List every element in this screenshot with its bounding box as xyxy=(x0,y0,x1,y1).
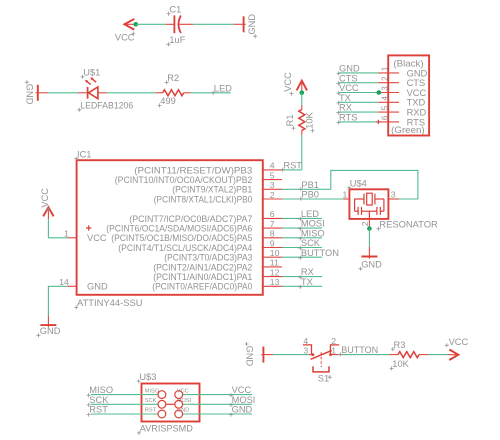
switch S1 xyxy=(303,345,339,372)
svg-text:RST: RST xyxy=(89,405,108,415)
wire VCC to C1 xyxy=(136,23,166,25)
wire net MOSI xyxy=(282,227,322,229)
svg-text:U$1: U$1 xyxy=(83,68,100,78)
ISP pad name GND xyxy=(177,408,189,414)
connector U$3 ISP box xyxy=(142,384,200,422)
wire ISP to net MOSI xyxy=(183,403,252,405)
FTDI pin 6 xyxy=(378,115,399,122)
node: junction dot on VCC wire at FTDI xyxy=(377,90,382,95)
IC1 pin 8 xyxy=(263,229,282,239)
svg-text:(PCINT3/T0/ADC3)PA3: (PCINT3/T0/ADC3)PA3 xyxy=(164,253,252,263)
svg-text:BUTTON: BUTTON xyxy=(341,345,378,355)
net label LED xyxy=(298,209,319,221)
pin connect cross on RTS xyxy=(376,120,380,124)
svg-text:GND: GND xyxy=(87,282,108,292)
wire net GND to FTDI pin 1 xyxy=(339,72,379,74)
wire net RX to FTDI pin 5 xyxy=(339,111,379,113)
resonator pin 2 xyxy=(360,219,370,229)
value 1uF xyxy=(166,35,185,46)
resistor R1 xyxy=(299,105,305,135)
svg-text:8: 8 xyxy=(270,229,275,239)
svg-text:3: 3 xyxy=(303,345,308,355)
GND label (LED row) xyxy=(25,80,35,105)
value RESONATOR xyxy=(377,220,438,231)
svg-text:2: 2 xyxy=(380,76,389,81)
svg-text:PB1: PB1 xyxy=(301,180,319,190)
svg-text:GND: GND xyxy=(40,326,61,336)
net label MOSI (right) xyxy=(229,395,255,407)
VCC label (top left) xyxy=(115,32,135,42)
IC1 pin 1 plus mark xyxy=(86,225,91,230)
net label CTS xyxy=(336,73,357,85)
value 10K (R1) xyxy=(304,111,314,132)
svg-text:4: 4 xyxy=(270,161,275,171)
IC1 pin name PB1 xyxy=(172,185,252,195)
net label VCC xyxy=(336,83,359,95)
net label MISO xyxy=(87,385,113,397)
svg-text:RTS: RTS xyxy=(407,117,425,127)
svg-text:2: 2 xyxy=(360,221,370,226)
IC1 pin 14 (GND) xyxy=(59,277,76,287)
svg-text:5: 5 xyxy=(380,105,389,110)
IC1 pin 9 xyxy=(263,238,282,248)
svg-text:R1: R1 xyxy=(285,114,295,126)
svg-text:2: 2 xyxy=(270,190,275,200)
label C1 xyxy=(167,4,182,15)
svg-text:(PCINT10/INT0/OC0A/CKOUT)PB2: (PCINT10/INT0/OC0A/CKOUT)PB2 xyxy=(115,175,253,185)
svg-text:U$4: U$4 xyxy=(350,179,367,189)
svg-text:RX: RX xyxy=(339,103,352,113)
svg-text:RESONATOR: RESONATOR xyxy=(379,220,438,230)
svg-text:(PCINT4/T1/SCL/USCK/ADC4)PA4: (PCINT4/T1/SCL/USCK/ADC4)PA4 xyxy=(118,243,252,253)
resistor R3 xyxy=(389,352,428,358)
ground (below pin 14) xyxy=(40,315,56,327)
FTDI pin name CTS xyxy=(407,78,426,88)
IC1 pin name PA3 xyxy=(164,253,252,263)
power VCC symbol (left of IC1) xyxy=(43,207,53,219)
svg-text:IC1: IC1 xyxy=(77,149,91,159)
FTDI pin 2 xyxy=(378,76,399,83)
FTDI pin name RXD xyxy=(407,108,427,118)
svg-text:ATTINY44-SSU: ATTINY44-SSU xyxy=(77,298,143,308)
svg-text:3: 3 xyxy=(270,180,275,190)
resistor R2 xyxy=(156,90,191,96)
IC1 pin name PA7 xyxy=(129,214,252,224)
label IC1 xyxy=(74,149,91,160)
svg-text:VCC: VCC xyxy=(283,72,293,92)
svg-text:(PCINT6/OC1A/SDA/MOSI/ADC6)PA6: (PCINT6/OC1A/SDA/MOSI/ADC6)PA6 xyxy=(106,224,252,234)
IC1 pin 10 xyxy=(263,248,282,258)
FTDI pin 5 xyxy=(378,105,399,112)
svg-text:SCK: SCK xyxy=(145,398,157,404)
svg-text:VCC: VCC xyxy=(449,337,469,347)
wire net CTS to FTDI pin 2 xyxy=(339,82,379,84)
FTDI pin name GND xyxy=(407,68,428,78)
IC1 pin name PB3 xyxy=(134,165,252,175)
IC1 pin 2 xyxy=(263,190,282,200)
svg-text:PB0: PB0 xyxy=(301,190,319,200)
svg-text:(Black): (Black) xyxy=(393,59,423,69)
wire R2 to LED net xyxy=(191,92,231,94)
value LEDFAB1206 xyxy=(77,101,133,112)
net label MISO xyxy=(298,228,324,240)
wire net RST to ISP xyxy=(91,413,158,415)
svg-text:1: 1 xyxy=(64,228,69,238)
VCC label (left of IC1) xyxy=(40,188,50,212)
label S1 xyxy=(318,374,332,384)
svg-text:5: 5 xyxy=(270,170,275,180)
svg-text:TX: TX xyxy=(339,93,351,103)
IC1 pin 5 xyxy=(263,170,282,180)
svg-text:9: 9 xyxy=(270,238,275,248)
svg-text:R2: R2 xyxy=(167,73,179,83)
net label GND xyxy=(336,64,360,76)
S1 pin number 1 xyxy=(331,345,336,355)
GND label (below resonator) xyxy=(359,260,383,271)
net label PB1 xyxy=(299,180,319,191)
ISP pad name RST xyxy=(145,408,157,414)
ISP pad name VCC xyxy=(177,388,189,394)
wire resonator pin 2 to GND xyxy=(368,229,370,247)
svg-text:10K: 10K xyxy=(392,359,409,369)
wire VCC to R1 xyxy=(301,93,303,105)
svg-text:LEDFAB1206: LEDFAB1206 xyxy=(80,101,133,111)
IC1 pin 12 xyxy=(263,267,282,277)
svg-text:1: 1 xyxy=(331,345,336,355)
svg-text:GND: GND xyxy=(232,405,253,415)
power VCC symbol (above R1) xyxy=(297,81,307,93)
label R3 xyxy=(391,340,406,351)
wire net RTS to FTDI pin 6 xyxy=(339,121,379,123)
IC1 pin name PB0 xyxy=(154,194,253,204)
svg-text:LED: LED xyxy=(301,209,319,219)
net label SCK xyxy=(87,395,110,407)
svg-text:499: 499 xyxy=(160,96,176,106)
connector J1 FTDI box xyxy=(388,55,429,135)
IC1 pin name PA6 xyxy=(106,224,252,234)
net label SCK xyxy=(298,238,321,250)
svg-text:12: 12 xyxy=(270,267,280,277)
value ATTINY44-SSU xyxy=(74,298,142,309)
ISP pad name MOSI xyxy=(177,398,192,404)
ISP pads (circles) xyxy=(158,391,183,418)
wire LED to R2 xyxy=(107,92,156,94)
node: VCC junction dot at arrow xyxy=(134,22,139,27)
label R2 xyxy=(165,73,179,84)
svg-text:6: 6 xyxy=(380,115,389,120)
svg-text:(PCINT8/XTAL1/CLKI)PB0: (PCINT8/XTAL1/CLKI)PB0 xyxy=(154,194,253,204)
FTDI pin name RTS xyxy=(407,117,425,127)
svg-text:1: 1 xyxy=(380,66,389,71)
node: junction dot at resonator pin 2 xyxy=(367,226,372,231)
value 10K (R3) xyxy=(390,359,410,370)
net label VCC (right) xyxy=(229,385,252,397)
wire net SCK to ISP xyxy=(91,403,158,405)
net label BUTTON xyxy=(298,248,339,260)
svg-text:(PCINT7/ICP/OC0B/ADC7)PA7: (PCINT7/ICP/OC0B/ADC7)PA7 xyxy=(129,214,252,224)
svg-text:MISO: MISO xyxy=(301,228,325,238)
ISP pad name MISO xyxy=(145,388,160,394)
ground (LED row left) xyxy=(36,85,48,101)
svg-text:R3: R3 xyxy=(394,340,406,350)
svg-text:SCK: SCK xyxy=(301,238,321,248)
net label MOSI xyxy=(298,219,324,231)
svg-text:GND: GND xyxy=(244,346,254,367)
svg-text:3: 3 xyxy=(391,189,396,199)
IC1 pin 3 xyxy=(263,180,282,190)
svg-text:(PCINT11/RESET/DW)PB3: (PCINT11/RESET/DW)PB3 xyxy=(134,165,252,175)
IC1 pin name GND xyxy=(87,282,108,292)
label U$4 xyxy=(347,179,367,190)
wire net LED xyxy=(282,217,322,219)
svg-text:(PCINT1/AIN0/ADC1)PA1: (PCINT1/AIN0/ADC1)PA1 xyxy=(153,272,252,282)
IC1 pin name PA5 xyxy=(111,233,252,243)
resonator pin 3 xyxy=(388,189,399,199)
IC1 pin name PA0 xyxy=(152,282,252,292)
label R1 xyxy=(285,114,295,130)
wire ISP to net GND xyxy=(183,413,252,415)
net label RST xyxy=(281,161,303,172)
IC U1 ATTINY44 box xyxy=(77,160,263,295)
svg-text:MISO: MISO xyxy=(145,388,160,394)
IC1 pin 13 xyxy=(263,277,282,287)
wire GND to S1 xyxy=(273,354,309,356)
svg-text:13: 13 xyxy=(270,277,280,287)
svg-text:3: 3 xyxy=(380,86,389,91)
wire net TX to FTDI pin 4 xyxy=(339,101,379,103)
label U$3 xyxy=(137,372,157,383)
resonator U$4 box xyxy=(349,189,388,219)
VCC label (above R1) xyxy=(283,72,293,96)
FTDI pin name VCC xyxy=(407,88,427,98)
net label TX xyxy=(336,93,350,105)
resonator U$4 crystal internals xyxy=(354,193,384,219)
svg-text:RST: RST xyxy=(145,408,157,414)
svg-text:VCC: VCC xyxy=(407,88,427,98)
net label LED xyxy=(211,84,232,95)
wire VCC to IC1 pin 1 xyxy=(48,219,67,238)
wire net MISO to ISP xyxy=(91,394,158,396)
svg-text:2: 2 xyxy=(331,336,336,346)
svg-text:C1: C1 xyxy=(169,4,181,14)
wire ISP to net VCC xyxy=(183,394,252,396)
svg-text:(PCINT9/XTAL2)PB1: (PCINT9/XTAL2)PB1 xyxy=(172,185,252,195)
S1 pin number 3 xyxy=(303,345,308,355)
svg-text:GND: GND xyxy=(25,84,35,105)
wire R1 to RST xyxy=(301,135,303,170)
FTDI pin 1 xyxy=(378,66,399,73)
ISP pad name SCK xyxy=(145,398,157,404)
GND label (button row) xyxy=(244,342,254,367)
net label TX xyxy=(298,277,312,289)
IC1 pin 4 xyxy=(263,161,282,171)
label U$1 xyxy=(81,68,101,79)
svg-text:LED: LED xyxy=(214,84,232,94)
wire net TX xyxy=(282,285,322,287)
IC1 pin name PA4 xyxy=(118,243,252,253)
svg-text:GND: GND xyxy=(361,260,382,270)
value AVRISPSMD xyxy=(137,424,193,435)
svg-text:RST: RST xyxy=(283,161,302,171)
svg-text:6: 6 xyxy=(270,209,275,219)
FTDI pin name TXD xyxy=(407,98,426,108)
power VCC symbol (top left) xyxy=(124,19,135,30)
IC1 pin name PA1 xyxy=(153,272,252,282)
svg-text:(PCINT5/OC1B/MISO/DO/ADC5)PA5: (PCINT5/OC1B/MISO/DO/ADC5)PA5 xyxy=(111,233,252,243)
wire net SCK xyxy=(282,247,322,249)
IC1 pin name PB2 xyxy=(115,175,253,185)
GND label (top right) xyxy=(247,14,257,39)
wire C1 to GND xyxy=(193,23,234,25)
VCC label (button row) xyxy=(445,337,469,347)
wire RST net xyxy=(282,169,302,171)
svg-text:1: 1 xyxy=(342,189,347,199)
ground (top right) xyxy=(234,16,246,32)
IC1 pin 6 xyxy=(263,209,282,219)
IC1 pin 7 xyxy=(263,219,282,229)
capacitor C1 xyxy=(166,15,193,33)
IC1 pin name PA2 xyxy=(153,262,252,272)
svg-text:(PCINT0/AREF/ADC0)PA0: (PCINT0/AREF/ADC0)PA0 xyxy=(152,282,252,292)
wire PB1 net segment a xyxy=(282,170,418,199)
svg-text:GND: GND xyxy=(339,64,360,74)
svg-text:VCC: VCC xyxy=(232,385,252,395)
svg-text:MISO: MISO xyxy=(89,385,113,395)
S1 pin number 4 xyxy=(303,336,308,346)
svg-text:SCK: SCK xyxy=(89,395,109,405)
svg-text:1uF: 1uF xyxy=(169,35,185,45)
svg-text:AVRISPSMD: AVRISPSMD xyxy=(140,424,193,434)
svg-text:VCC: VCC xyxy=(87,233,107,243)
svg-text:U$3: U$3 xyxy=(139,372,156,382)
svg-text:BUTTON: BUTTON xyxy=(301,248,339,258)
FTDI pin 4 xyxy=(378,96,399,103)
ground (below resonator) xyxy=(361,247,377,259)
svg-text:10K: 10K xyxy=(304,111,314,128)
svg-text:7: 7 xyxy=(270,219,275,229)
net label PB0 xyxy=(299,190,319,201)
net label BUTTON xyxy=(339,345,379,356)
svg-text:RTS: RTS xyxy=(339,113,357,123)
net label RTS xyxy=(336,113,357,125)
node: VCC junction dot at R1 xyxy=(300,90,305,95)
svg-text:14: 14 xyxy=(59,277,69,287)
svg-text:VCC: VCC xyxy=(40,188,50,208)
wire S1 to R3 (BUTTON net) xyxy=(339,354,389,356)
wire net BUTTON xyxy=(282,256,322,258)
svg-text:CTS: CTS xyxy=(339,73,358,83)
svg-text:VCC: VCC xyxy=(339,83,359,93)
net label GND (right) xyxy=(229,405,253,417)
ground (button row) xyxy=(261,347,273,363)
svg-text:S1: S1 xyxy=(318,374,329,384)
label (Green) xyxy=(391,125,424,135)
GND label (below pin 14) xyxy=(36,326,60,337)
value 499 xyxy=(158,96,176,107)
wire net VCC to FTDI pin 3 xyxy=(339,92,379,94)
resonator pin 1 xyxy=(342,189,349,199)
svg-text:4: 4 xyxy=(303,336,308,346)
svg-text:GND: GND xyxy=(407,68,428,78)
IC1 pin name VCC xyxy=(87,233,107,243)
wire GND to LED xyxy=(48,92,79,94)
S1 pin number 2 xyxy=(331,336,336,346)
IC1 pin 1 (VCC) xyxy=(64,228,77,238)
IC1 pin 11 xyxy=(263,258,282,268)
svg-text:RX: RX xyxy=(301,267,314,277)
svg-text:10: 10 xyxy=(270,248,280,258)
FTDI pin 3 xyxy=(378,86,399,93)
LED U$1 xyxy=(78,77,107,99)
svg-text:MOSI: MOSI xyxy=(232,395,256,405)
wire PB0 net xyxy=(282,198,344,200)
net label RX xyxy=(336,103,352,115)
wire IC1 pin 14 to GND xyxy=(48,286,67,315)
svg-text:CTS: CTS xyxy=(407,78,426,88)
wire R3 to VCC xyxy=(428,354,448,356)
svg-text:TX: TX xyxy=(301,277,313,287)
label (Black) xyxy=(393,59,423,69)
svg-text:TXD: TXD xyxy=(407,98,426,108)
wire net RX xyxy=(282,276,322,278)
svg-text:RXD: RXD xyxy=(407,108,427,118)
svg-text:MOSI: MOSI xyxy=(301,219,325,229)
svg-text:11: 11 xyxy=(270,258,279,268)
power VCC symbol (button row) xyxy=(448,350,459,361)
svg-text:GND: GND xyxy=(247,14,257,35)
svg-text:(PCINT2/AIN1/ADC2)PA2: (PCINT2/AIN1/ADC2)PA2 xyxy=(153,262,252,272)
net label RST xyxy=(87,405,109,417)
net label RX xyxy=(298,267,314,279)
wire net MISO xyxy=(282,237,322,239)
svg-text:4: 4 xyxy=(380,96,389,101)
